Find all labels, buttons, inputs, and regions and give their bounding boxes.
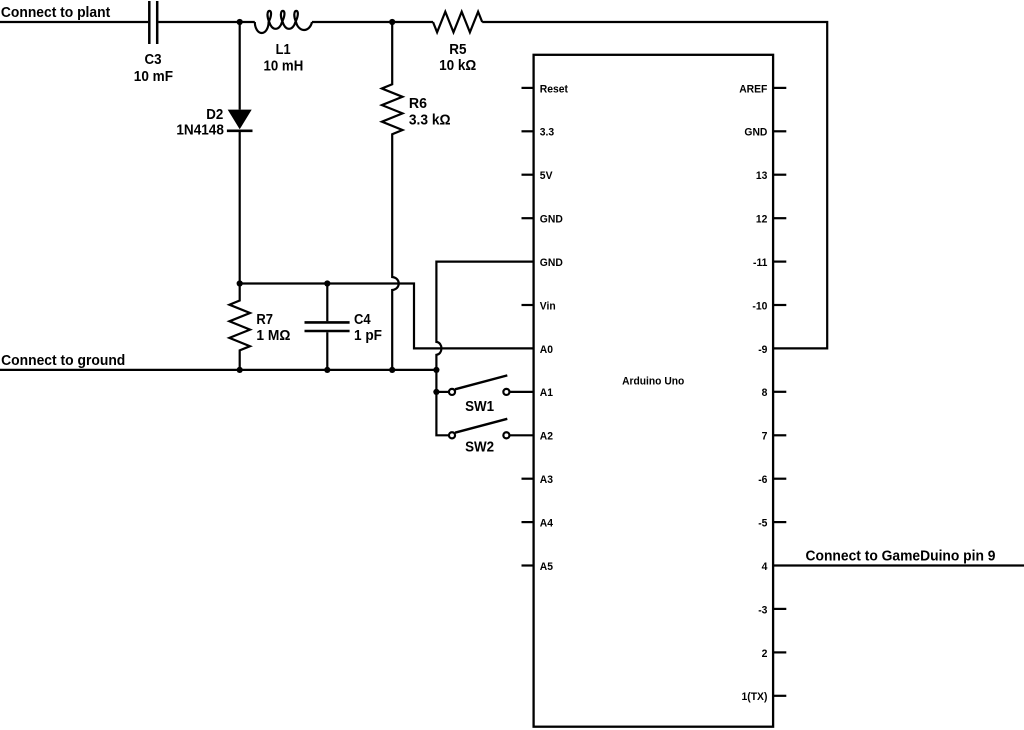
- svg-text:GND: GND: [540, 214, 563, 226]
- pin stub A4: [522, 521, 534, 523]
- svg-text:7: 7: [762, 431, 768, 443]
- svg-text:R7: R7: [256, 311, 273, 328]
- svg-text:L1: L1: [276, 41, 291, 58]
- svg-text:12: 12: [756, 214, 768, 226]
- svg-text:A3: A3: [540, 474, 553, 486]
- wire: plant input to C3: [0, 21, 148, 23]
- pin stub 2 (right): [773, 651, 786, 653]
- svg-text:2: 2: [762, 648, 768, 660]
- junction: C4 to ground: [324, 367, 330, 373]
- switch SW2: [449, 419, 534, 439]
- wire: GND pin drop (hop over A0 wire) down to SW2: [436, 262, 533, 436]
- svg-text:-10: -10: [752, 300, 767, 312]
- svg-text:-3: -3: [758, 604, 767, 616]
- svg-text:AREF: AREF: [739, 83, 767, 95]
- svg-text:10 kΩ: 10 kΩ: [439, 57, 476, 74]
- junction: C3/L1/D2 node: [237, 19, 243, 25]
- svg-text:Reset: Reset: [540, 83, 569, 95]
- svg-text:A0: A0: [540, 344, 553, 356]
- svg-text:1N4148: 1N4148: [176, 121, 224, 138]
- svg-text:-5: -5: [758, 518, 767, 530]
- pin stub -3 (right): [773, 608, 786, 610]
- pin stub 12 (right): [773, 217, 786, 219]
- junction: L1/R5/R6 node: [389, 19, 395, 25]
- svg-text:3.3: 3.3: [540, 127, 554, 139]
- svg-text:-11: -11: [753, 257, 767, 269]
- svg-text:4: 4: [762, 561, 769, 573]
- pin stub -11 (right): [773, 261, 786, 263]
- junction: R6 to ground: [389, 367, 395, 373]
- svg-text:A4: A4: [540, 518, 554, 530]
- svg-text:C4: C4: [354, 311, 371, 328]
- svg-text:-6: -6: [758, 474, 767, 486]
- svg-text:Vin: Vin: [540, 300, 556, 312]
- svg-text:A1: A1: [540, 387, 553, 399]
- pin stub 3.3: [522, 130, 534, 132]
- switch SW1: [436, 375, 533, 395]
- wire: pin 4 to GameDuino: [773, 564, 1024, 566]
- inductor L1: [255, 11, 312, 33]
- svg-text:SW1: SW1: [465, 398, 494, 415]
- svg-text:Connect to ground: Connect to ground: [1, 352, 125, 369]
- svg-text:5V: 5V: [540, 170, 553, 182]
- wire: R5 to Arduino pin -9: [482, 22, 827, 348]
- wire: C3 to L1: [158, 21, 254, 23]
- svg-text:8: 8: [762, 387, 768, 399]
- pin stub Vin: [522, 304, 534, 306]
- capacitor C4: [305, 284, 350, 370]
- svg-text:Arduino Uno: Arduino Uno: [622, 375, 684, 387]
- svg-text:13: 13: [756, 170, 768, 182]
- svg-text:3.3 kΩ: 3.3 kΩ: [409, 111, 451, 128]
- svg-text:GND: GND: [540, 257, 563, 269]
- pin stub 5V: [522, 174, 534, 176]
- junction: C4 top node: [324, 280, 330, 286]
- svg-text:Connect to plant: Connect to plant: [1, 4, 110, 21]
- pin stub A5: [522, 564, 534, 566]
- svg-text:-9: -9: [758, 344, 767, 356]
- pin stub GND (top): [522, 217, 534, 219]
- junction: R7 to ground: [237, 367, 243, 373]
- resistor R7: [229, 284, 250, 370]
- pin stub 7 (right): [773, 434, 786, 436]
- pin stub -10 (right): [773, 304, 786, 306]
- svg-text:R5: R5: [449, 41, 467, 58]
- pin stub -6 (right): [773, 478, 786, 480]
- svg-text:A2: A2: [540, 431, 553, 443]
- pin stub 1(TX) (right): [773, 695, 786, 697]
- junction: D2/R7 node: [237, 280, 243, 286]
- junction: ground line end: [433, 367, 439, 373]
- svg-text:GND: GND: [744, 127, 767, 139]
- wire: node row to A0 pin: [240, 284, 534, 349]
- svg-text:1 pF: 1 pF: [354, 327, 382, 344]
- svg-text:1(TX): 1(TX): [742, 691, 768, 703]
- svg-text:C3: C3: [145, 51, 162, 68]
- pin stub A3: [522, 478, 534, 480]
- svg-text:10 mF: 10 mF: [134, 68, 173, 85]
- svg-text:10 mH: 10 mH: [264, 57, 304, 74]
- resistor R5: [433, 12, 482, 33]
- pin stub -5 (right): [773, 521, 786, 523]
- pin stub AREF (right): [773, 87, 786, 89]
- svg-text:Connect to GameDuino pin 9: Connect to GameDuino pin 9: [806, 548, 996, 565]
- junction: SW1 tap: [433, 389, 439, 395]
- svg-text:1 MΩ: 1 MΩ: [256, 327, 290, 344]
- pin stub GND (right): [773, 130, 786, 132]
- svg-text:SW2: SW2: [465, 438, 494, 455]
- svg-text:A5: A5: [540, 561, 553, 573]
- pin stub 8 (right): [773, 391, 786, 393]
- resistor R6 (with hop over node wire): [382, 22, 403, 370]
- wire: ground line: [0, 369, 436, 371]
- capacitor C3: [149, 1, 157, 44]
- svg-text:R6: R6: [409, 95, 427, 112]
- diode D2: [227, 22, 253, 284]
- pin stub 13 (right): [773, 174, 786, 176]
- Arduino Uno box U1: [534, 55, 774, 727]
- wire: L1 to R5: [312, 21, 433, 23]
- pin stub Reset: [522, 87, 534, 89]
